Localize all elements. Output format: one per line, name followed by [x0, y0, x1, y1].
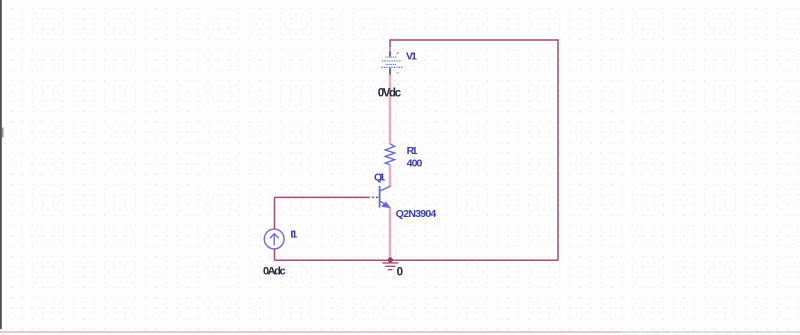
wire V1 to R1 — [389, 74, 392, 144]
ground net label 0 — [397, 267, 403, 279]
svg-text:0Adc: 0Adc — [263, 265, 286, 277]
value Q2N3904 — [396, 208, 437, 220]
svg-text:I1: I1 — [290, 229, 297, 241]
junction node at ground — [388, 257, 393, 262]
label R1 — [407, 145, 418, 157]
value 400 — [407, 158, 423, 170]
value 0Vdc — [378, 88, 402, 100]
wire I1 bottom — [274, 249, 276, 260]
svg-text:Q1: Q1 — [374, 171, 385, 183]
svg-text:0: 0 — [397, 267, 403, 279]
resistor R1 — [385, 144, 394, 165]
value 0Adc — [263, 265, 286, 277]
svg-text:0Vdc: 0Vdc — [378, 88, 402, 100]
wire R1 to Q1 collector — [389, 165, 392, 187]
label Q1 — [374, 171, 385, 183]
label I1 — [290, 229, 297, 241]
svg-text:Q2N3904: Q2N3904 — [396, 208, 437, 220]
wire right rail — [557, 39, 559, 260]
wire V1 top stub — [389, 39, 391, 52]
window left border — [0, 0, 3, 329]
wire base horizontal — [275, 196, 380, 198]
svg-text:400: 400 — [407, 158, 423, 170]
wire top: V1 plus to right rail — [390, 39, 558, 41]
wire Q1 emitter to ground — [389, 207, 392, 259]
label V1 — [406, 50, 417, 62]
voltage source V1 (battery symbol) — [381, 52, 402, 75]
svg-text:R1: R1 — [407, 145, 418, 157]
svg-text:V1: V1 — [406, 50, 417, 62]
ground 0 — [382, 263, 398, 270]
window bottom edge / scrollbar line — [0, 331, 800, 333]
wire bottom bus — [275, 259, 559, 261]
transistor Q1 (NPN Q2N3904) — [380, 186, 391, 208]
current source I1 — [264, 229, 284, 249]
wire I1 top — [274, 197, 276, 229]
